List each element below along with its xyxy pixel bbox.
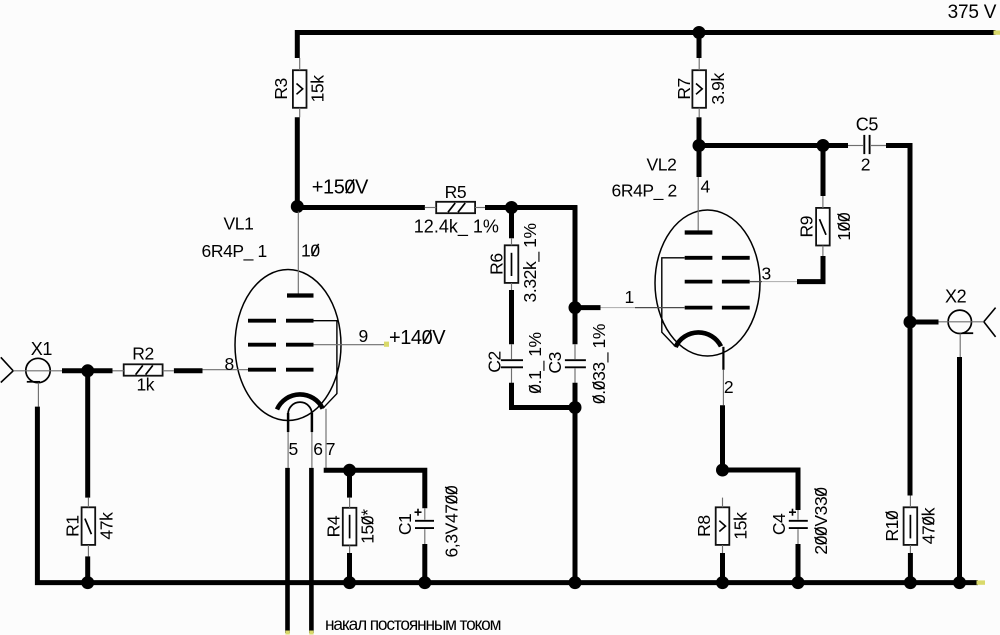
label C1 xyxy=(395,514,415,536)
svg-text:R1: R1 xyxy=(63,515,83,537)
svg-text:6R4P_ 2: 6R4P_ 2 xyxy=(612,180,677,201)
junction R8 ground xyxy=(716,576,729,589)
label R10 xyxy=(882,510,902,542)
svg-text:15k: 15k xyxy=(308,75,328,103)
node R8 top junction xyxy=(716,464,729,477)
wire C2 bottom corner xyxy=(512,383,578,408)
value 0.033_ 1% (C3) xyxy=(589,324,610,404)
tube VL2 envelope xyxy=(655,210,760,356)
svg-text:R6: R6 xyxy=(486,253,506,275)
wire C1 to ground rail xyxy=(422,544,427,583)
VL1 g3-cathode tie xyxy=(314,321,337,409)
wire R9 to pin 3 xyxy=(797,256,823,282)
svg-text:R9: R9 xyxy=(796,216,816,238)
svg-text:2: 2 xyxy=(724,377,733,397)
capacitor C5 xyxy=(863,135,865,154)
node X2 junction xyxy=(904,316,917,329)
svg-text:470k: 470k xyxy=(918,507,938,544)
wire X1 to R2 xyxy=(62,368,113,373)
artifact yellow tick ground rail end xyxy=(977,580,986,584)
heater pin 6 wire xyxy=(311,432,313,468)
svg-text:C5: C5 xyxy=(856,114,879,134)
svg-text:10: 10 xyxy=(301,240,320,260)
wire rail to R7 xyxy=(697,30,702,58)
svg-text:5: 5 xyxy=(289,439,298,459)
value 3.9k (R7) xyxy=(708,73,728,105)
value 47k (R1) xyxy=(96,512,116,540)
resistor R9 xyxy=(816,208,830,246)
svg-text:4: 4 xyxy=(701,176,711,196)
VL1 cathode xyxy=(277,394,323,409)
label R6 xyxy=(486,253,506,275)
VL2 grid row3 xyxy=(685,306,713,310)
tube VL1 envelope xyxy=(235,270,341,421)
heater pin 5 wire xyxy=(287,432,289,468)
wire R6 to C2 xyxy=(509,290,514,344)
node C3 bottom junction xyxy=(569,401,582,414)
svg-text:+150V: +150V xyxy=(312,177,369,199)
svg-text:R5: R5 xyxy=(445,182,467,202)
svg-text:R2: R2 xyxy=(132,344,154,364)
node +150V junction xyxy=(291,200,304,213)
svg-text:0.033_ 1%: 0.033_ 1% xyxy=(589,324,610,404)
svg-text:X1: X1 xyxy=(31,339,53,359)
resistor R8 xyxy=(716,507,730,545)
wire C3 down to ground rail xyxy=(573,383,578,583)
resistor R10 xyxy=(904,507,918,545)
svg-text:8: 8 xyxy=(225,354,234,374)
svg-text:X2: X2 xyxy=(945,286,967,306)
junction C1 ground xyxy=(418,576,431,589)
value 100 (R9) xyxy=(834,212,854,241)
wire node to R4 xyxy=(347,470,352,497)
VL2 g3-cathode tie xyxy=(662,258,685,347)
wire R7 to VL2 anode node xyxy=(697,117,702,148)
label R7 xyxy=(674,78,694,100)
svg-text:200V330: 200V330 xyxy=(811,487,831,555)
VL1 grid row3 xyxy=(248,368,276,372)
VL2 grid row2 xyxy=(685,280,713,284)
resistor R4 xyxy=(343,508,357,546)
svg-text:накал постоянным током: накал постоянным током xyxy=(325,614,501,634)
label R9 xyxy=(796,216,816,238)
wire R3 to node +150V xyxy=(295,117,300,209)
wire C5 node to R9 xyxy=(821,146,826,197)
VL2 anode plate xyxy=(685,230,713,234)
value 200V330 (C4) xyxy=(811,487,831,555)
node C5 junction xyxy=(817,139,830,152)
label R1 xyxy=(63,515,83,537)
resistor R5 xyxy=(436,202,475,213)
junction C3 ground xyxy=(569,576,582,589)
wire R8 to ground rail xyxy=(720,553,725,583)
VL2 cathode xyxy=(676,332,721,347)
svg-text:C2: C2 xyxy=(484,351,504,373)
svg-text:3.32k_ 1%: 3.32k_ 1% xyxy=(520,223,541,302)
svg-text:3: 3 xyxy=(762,264,771,284)
wire C5 to X2 branch xyxy=(886,146,910,325)
svg-text:3.9k: 3.9k xyxy=(708,73,728,105)
artifact yellow tick +140V line xyxy=(384,342,389,347)
pin 1 line (VL2) xyxy=(575,305,601,310)
value 15k (R3) xyxy=(308,75,328,103)
pin 4 lead (VL2 anode) xyxy=(697,177,699,230)
VL1 heater xyxy=(288,402,312,414)
svg-text:6R4P_ 1: 6R4P_ 1 xyxy=(202,241,267,262)
wire C4 to ground rail xyxy=(796,544,801,583)
node VL2 anode junction xyxy=(693,139,706,152)
wire pin7 to C1 xyxy=(324,470,425,508)
artifact yellow heater tips xyxy=(285,631,289,635)
junction R4 ground xyxy=(343,576,356,589)
node R4 top junction xyxy=(343,464,356,477)
label R3 xyxy=(271,78,291,100)
svg-text:6,3V4700: 6,3V4700 xyxy=(442,485,462,557)
svg-text:47k: 47k xyxy=(96,512,116,540)
label C2 xyxy=(484,351,504,373)
wire node to VL2 anode xyxy=(697,146,702,178)
svg-text:VL1: VL1 xyxy=(224,214,254,234)
connector X2 xyxy=(948,310,971,333)
capacitor C1 xyxy=(415,520,434,522)
capacitor C4 xyxy=(789,520,808,522)
svg-text:R4: R4 xyxy=(324,515,344,537)
value 470k (R10) xyxy=(918,507,938,544)
artifact yellow tick top rail end xyxy=(994,30,1000,34)
wire X1 down to ground rail xyxy=(37,407,978,583)
svg-text:150*: 150* xyxy=(358,509,378,544)
VL1 grid row2 xyxy=(248,343,276,347)
svg-text:0.1_ 1%: 0.1_ 1% xyxy=(525,332,546,393)
VL2 grid row1 xyxy=(685,256,713,260)
pin 2 lead (VL2) xyxy=(722,347,724,370)
wire R2 to VL1 grid xyxy=(174,368,203,373)
svg-text:2: 2 xyxy=(861,154,870,174)
svg-text:15k: 15k xyxy=(731,512,751,540)
node X1 junction xyxy=(81,364,94,377)
label C4 xyxy=(769,513,789,535)
svg-text:C4: C4 xyxy=(769,513,789,535)
pin 9 line (VL1) xyxy=(314,344,385,346)
svg-text:1: 1 xyxy=(625,287,634,307)
wire node to X2 xyxy=(910,320,939,325)
wire 375V top rail xyxy=(297,33,995,59)
label R4 xyxy=(324,515,344,537)
capacitor C3 xyxy=(565,359,586,361)
svg-text:C1: C1 xyxy=(395,514,415,536)
svg-text:+140V: +140V xyxy=(389,327,446,349)
svg-text:6: 6 xyxy=(313,439,322,459)
label R8 xyxy=(694,515,714,537)
wire pin2 to R8 C4 xyxy=(723,405,799,510)
wire +150V node to R5 xyxy=(295,205,425,210)
svg-text:C3: C3 xyxy=(545,352,565,374)
resistor R1 xyxy=(82,507,96,545)
junction R7 top xyxy=(693,26,706,39)
wire X2 down to ground rail xyxy=(957,357,962,583)
pin 7 lead (VL1) xyxy=(325,409,327,468)
wire R5 to node A to corner xyxy=(485,205,577,210)
wire R10 to ground rail xyxy=(908,553,913,583)
value 6,3V4700 (C1) xyxy=(442,485,462,557)
node B junction xyxy=(569,301,582,314)
node A junction xyxy=(505,201,518,214)
value 3.32k_ 1% (R6) xyxy=(520,223,541,302)
wire anode node to C5 node xyxy=(697,143,848,148)
junction C4 ground xyxy=(792,576,805,589)
pin 10 lead (VL1 anode) xyxy=(297,212,299,294)
VL1 anode plate xyxy=(287,293,314,297)
wire X2 node down to R10 xyxy=(908,322,913,496)
svg-text:7: 7 xyxy=(326,439,335,459)
wire R4 to ground rail xyxy=(347,553,352,583)
pin 8 line (VL1) xyxy=(203,369,249,371)
value 15k (R8) xyxy=(731,512,751,540)
svg-text:R7: R7 xyxy=(674,78,694,100)
value 150* (R4) xyxy=(358,509,378,544)
VL1 grid row1 xyxy=(248,319,276,323)
wire R1 to ground rail xyxy=(85,556,90,582)
junction X2 ground xyxy=(953,576,966,589)
svg-text:VL2: VL2 xyxy=(647,154,677,174)
junction R10 ground xyxy=(904,576,917,589)
junction R1 ground xyxy=(81,576,94,589)
wire corner down to C3 xyxy=(573,205,578,344)
connector X1 xyxy=(26,358,50,382)
svg-text:1k: 1k xyxy=(136,375,154,395)
capacitor C2 xyxy=(501,359,523,361)
resistor R2 xyxy=(124,364,163,375)
svg-text:R3: R3 xyxy=(271,78,291,100)
value 0.1_ 1% (C2) xyxy=(525,332,546,393)
svg-text:9: 9 xyxy=(359,326,368,346)
svg-text:375 V: 375 V xyxy=(948,2,997,23)
label C3 xyxy=(545,352,565,374)
wire node to R1 xyxy=(85,371,90,498)
pin 3 line (VL2) xyxy=(750,281,762,283)
resistor R3 xyxy=(293,70,307,108)
resistor R7 xyxy=(692,70,706,108)
wire node A to R6 xyxy=(509,208,514,239)
svg-text:12.4k_ 1%: 12.4k_ 1% xyxy=(414,217,499,238)
svg-text:R8: R8 xyxy=(694,515,714,537)
resistor R6 xyxy=(505,245,519,283)
